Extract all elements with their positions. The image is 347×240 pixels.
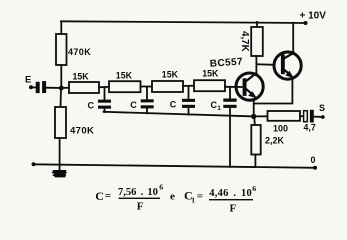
capacitor C shunt 3 bbox=[188, 86, 190, 99]
wire C1 bottom down to 0 rail bbox=[229, 108, 231, 167]
svg-text:2,2K: 2,2K bbox=[265, 136, 285, 146]
svg-text:=: = bbox=[197, 190, 203, 202]
wire Q2 emitter down and left to node J bbox=[254, 79, 292, 104]
svg-text:100: 100 bbox=[273, 123, 288, 133]
svg-text:C: C bbox=[88, 100, 95, 110]
wire node A to R1 bbox=[61, 87, 69, 89]
wire 470K upper to node E bbox=[60, 65, 62, 88]
svg-text:F: F bbox=[230, 203, 237, 215]
formula C bbox=[95, 182, 256, 214]
svg-text:BC557: BC557 bbox=[210, 57, 244, 70]
svg-text:E: E bbox=[25, 75, 31, 86]
wire R1 to node B bbox=[99, 86, 109, 89]
svg-text:1: 1 bbox=[217, 105, 221, 112]
wire shunt bus bbox=[104, 112, 254, 117]
wire capacitor to node A bbox=[46, 87, 61, 89]
svg-text:0: 0 bbox=[311, 155, 316, 165]
svg-text:4,46 . 10: 4,46 . 10 bbox=[209, 188, 252, 199]
svg-text:470K: 470K bbox=[70, 126, 94, 137]
wire R3 to node D bbox=[183, 85, 194, 87]
wire 4,7K to Q1 emitter / Q2 base node bbox=[255, 56, 257, 73]
capacitor 4,7 output bbox=[304, 111, 308, 122]
wire R2 to node C bbox=[141, 86, 153, 88]
wire node to Q2 base bbox=[256, 63, 274, 66]
svg-text:S: S bbox=[319, 103, 325, 113]
svg-text:6: 6 bbox=[252, 184, 256, 193]
wire Q2 collector up to +10V rail bbox=[292, 23, 294, 53]
svg-text:e: e bbox=[170, 191, 175, 203]
svg-text:+ 10V: + 10V bbox=[300, 10, 327, 21]
svg-text:C: C bbox=[170, 100, 177, 110]
svg-text:=: = bbox=[105, 190, 111, 202]
svg-text:F: F bbox=[137, 201, 144, 213]
svg-text:15K: 15K bbox=[116, 70, 133, 80]
wire capacitor to S terminal bbox=[314, 116, 323, 118]
wire 2,2K to 0 rail bbox=[254, 155, 256, 168]
node J junction dot bbox=[251, 114, 256, 119]
wire node A to R 470K lower bbox=[60, 88, 63, 107]
svg-text:4,7K: 4,7K bbox=[239, 31, 250, 52]
transistor Q2 bbox=[274, 52, 301, 79]
capacitor E input (plates) bbox=[36, 82, 40, 93]
svg-text:15K: 15K bbox=[73, 72, 90, 82]
resistor R4 15K bbox=[194, 80, 225, 91]
capacitor C shunt 1 bbox=[104, 88, 106, 100]
svg-text:470K: 470K bbox=[68, 47, 91, 57]
resistor R3 15K bbox=[152, 81, 183, 92]
node S terminal dot bbox=[321, 115, 325, 119]
resistor R2 15K bbox=[109, 81, 141, 92]
wire bottom 0 rail bbox=[33, 164, 316, 168]
svg-text:6: 6 bbox=[159, 182, 163, 191]
wire 100 to output capacitor bbox=[300, 115, 304, 117]
transistor Q1 BC557 bbox=[236, 73, 263, 100]
svg-text:15K: 15K bbox=[162, 70, 179, 80]
svg-text:7,56 . 10: 7,56 . 10 bbox=[118, 187, 158, 198]
resistor R1 15K bbox=[69, 82, 99, 93]
svg-text:4,7: 4,7 bbox=[304, 123, 316, 133]
capacitor C shunt 2 bbox=[146, 87, 148, 100]
svg-text:15K: 15K bbox=[202, 69, 219, 79]
wire node J to resistor 100 bbox=[254, 115, 268, 117]
wire rail down to R 470K upper bbox=[60, 21, 62, 34]
resistor 4,7K bbox=[256, 22, 258, 27]
ground symbol bbox=[52, 170, 67, 177]
resistor 470K upper bbox=[56, 34, 67, 65]
wire Q1 collector down to node J bbox=[253, 99, 255, 116]
svg-text:C: C bbox=[130, 100, 137, 110]
capacitor C1 shunt bbox=[229, 87, 231, 99]
svg-text:C: C bbox=[95, 189, 104, 203]
node rail left terminal dot bbox=[32, 162, 36, 166]
wire 470K lower to ground rail bbox=[59, 138, 61, 171]
wire E terminal to capacitor bbox=[31, 86, 36, 88]
resistor 470K lower bbox=[55, 107, 66, 138]
node A junction bbox=[59, 86, 64, 91]
node E input terminal bbox=[29, 85, 33, 89]
resistor 2,2K bbox=[253, 116, 256, 125]
wire top +10V rail bbox=[61, 21, 306, 23]
svg-text:1: 1 bbox=[191, 196, 195, 205]
resistor 100 bbox=[268, 111, 301, 121]
node +10V terminal dot bbox=[304, 21, 308, 25]
node rail right terminal dot bbox=[313, 166, 317, 170]
wire R4 to Q1 base bbox=[225, 86, 243, 88]
